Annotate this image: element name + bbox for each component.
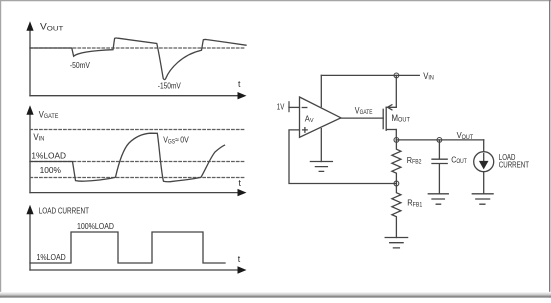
svg-text:-150mV: -150mV <box>158 82 182 91</box>
graph3 x-axis arrowhead <box>238 266 247 273</box>
wire VOUT rail <box>396 139 483 141</box>
svg-text:-50mV: -50mV <box>70 61 91 70</box>
graph2 y-axis <box>29 115 31 193</box>
node VOUT junction at MOUT drain <box>394 138 399 143</box>
svg-text:CURRENT: CURRENT <box>499 161 529 170</box>
wire feedback from plus input to RFB node <box>289 130 396 184</box>
graph1 y-axis arrowhead <box>26 21 33 31</box>
frame left edge <box>0 0 2 298</box>
frame top edge <box>0 0 551 2</box>
wire MOUT source to VIN node <box>395 75 397 107</box>
svg-text:1%LOAD: 1%LOAD <box>31 150 66 160</box>
transistor MOUT source stub with arrow <box>386 105 396 110</box>
graph2 x-axis arrowhead <box>238 189 247 196</box>
graph2 100% dashed line <box>30 177 246 179</box>
1V source bar <box>288 102 290 112</box>
op-amp minus sign <box>302 107 307 109</box>
load current source <box>483 140 485 152</box>
wire load to ground <box>483 172 485 194</box>
graph3 y-axis arrowhead <box>26 205 33 215</box>
capacitor COUT <box>432 140 447 194</box>
graph1 nominal dashed line <box>30 47 246 49</box>
ground COUT <box>428 194 448 204</box>
wire op-amp supply to VIN rail <box>320 75 322 106</box>
frame right edge <box>549 0 551 298</box>
ground RFB1 <box>385 238 407 248</box>
op-amp plus sign <box>303 128 308 133</box>
wire op-amp output to gate <box>341 117 383 119</box>
op-amp AV triangle <box>300 97 341 137</box>
wire 1V to op-amp inverting input <box>289 106 300 108</box>
graph2 y-axis arrowhead <box>26 105 33 115</box>
ground op-amp <box>310 162 332 172</box>
node VIN junction <box>394 73 399 78</box>
graph1 x-axis arrowhead <box>238 92 247 99</box>
wire MOUT drain to output node <box>395 130 397 140</box>
graph2 VIN dashed line <box>30 129 246 131</box>
resistor RFB1 <box>392 184 401 238</box>
node COUT junction <box>437 138 442 143</box>
graph3 x-axis <box>30 269 239 271</box>
graph2 VGATE waveform <box>30 133 225 182</box>
transistor MOUT channel bar <box>385 107 387 130</box>
graph3 load current square wave <box>30 232 225 263</box>
graph2 1%LOAD dashed line <box>30 161 246 163</box>
svg-text:VGS≈ 0V: VGS≈ 0V <box>163 135 189 146</box>
svg-text:1%LOAD: 1%LOAD <box>37 252 66 262</box>
transistor MOUT gate bar <box>382 109 384 128</box>
svg-text:1V: 1V <box>277 103 285 112</box>
node feedback junction <box>394 181 399 186</box>
svg-text:LOAD CURRENT: LOAD CURRENT <box>39 206 90 216</box>
graph1 VOUT waveform <box>30 38 246 80</box>
frame bottom shade <box>0 292 551 297</box>
svg-text:100%: 100% <box>40 165 62 175</box>
svg-text:100%LOAD: 100%LOAD <box>77 221 114 231</box>
ground load <box>472 194 493 204</box>
resistor RFB2 <box>392 140 401 184</box>
graph3 y-axis <box>29 214 31 270</box>
graph1 y-axis <box>29 30 31 95</box>
frame bottom edge <box>0 297 551 299</box>
graph2 x-axis <box>30 192 239 194</box>
wire op-amp to ground <box>320 129 322 162</box>
wire VIN rail <box>321 74 419 76</box>
graph1 x-axis <box>30 95 239 97</box>
transistor MOUT drain stub <box>386 129 396 131</box>
